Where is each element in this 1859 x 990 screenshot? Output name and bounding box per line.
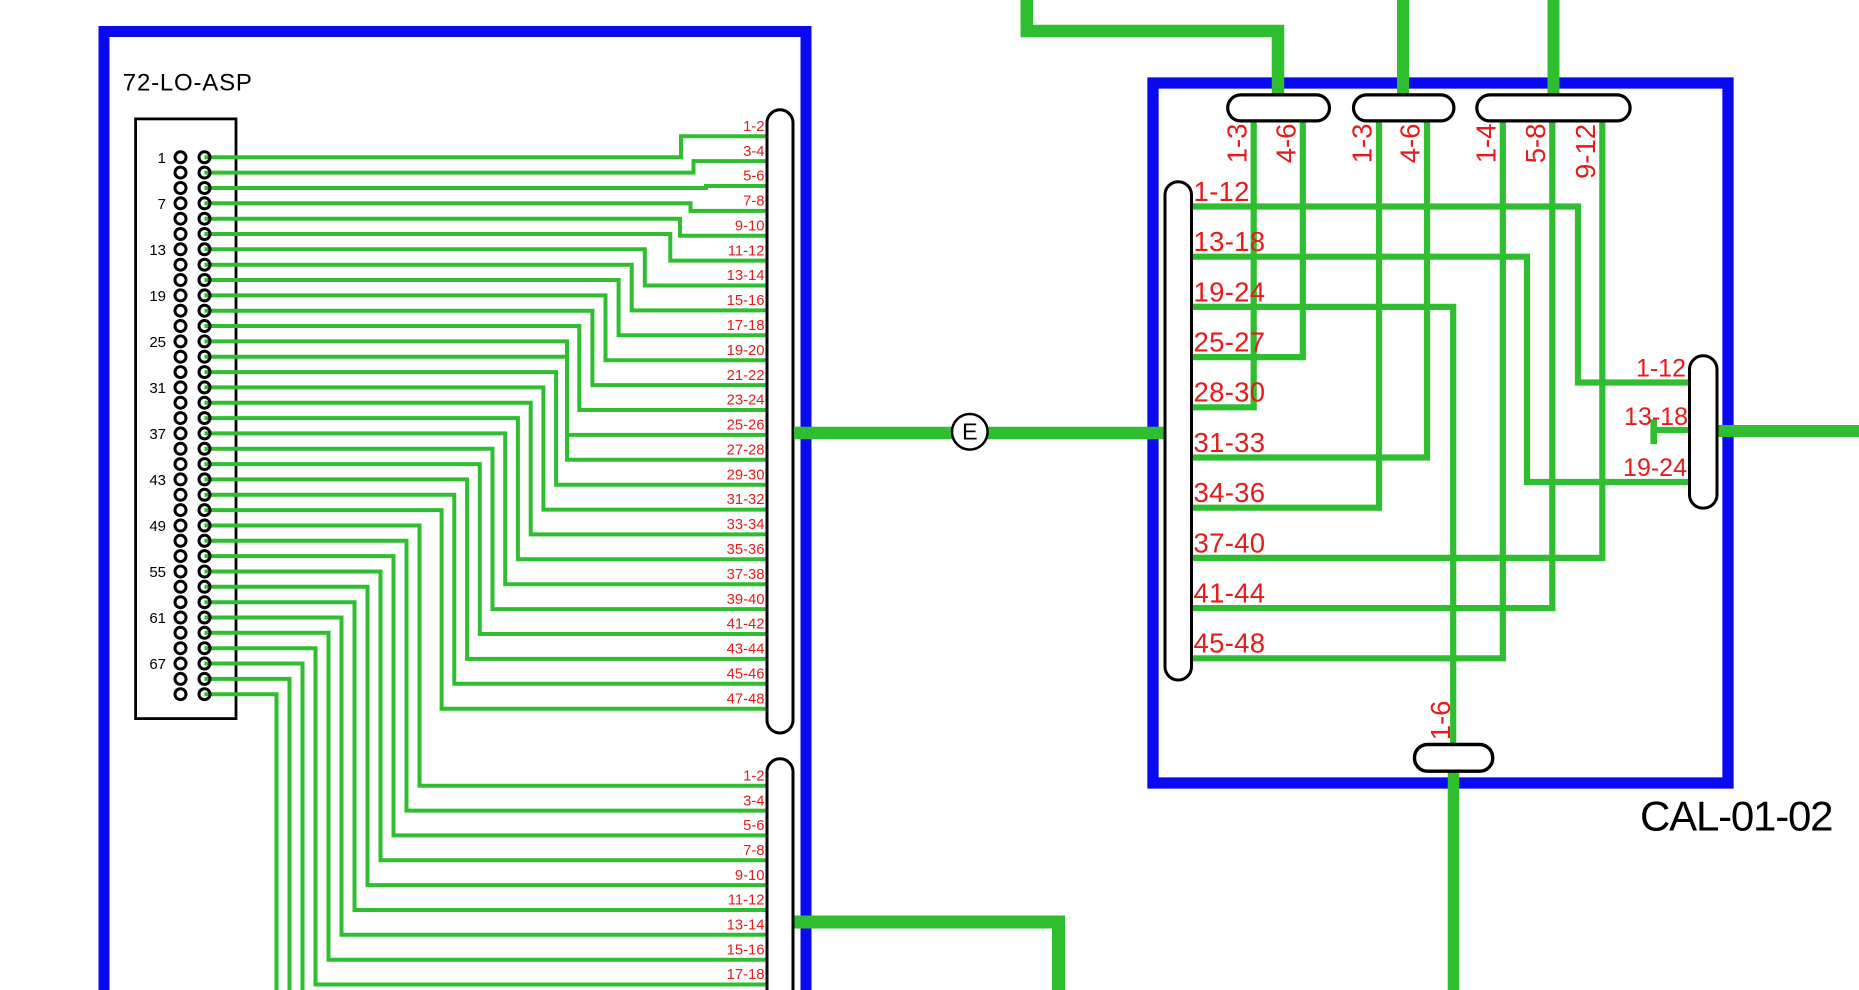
enclosure CAL-01-02 (blue border): [1153, 83, 1728, 783]
svg-text:19-24: 19-24: [1194, 276, 1266, 307]
wire pins 1-2: [205, 136, 781, 157]
node E (cable junction): [952, 414, 988, 450]
svg-text:15-16: 15-16: [727, 942, 765, 958]
svg-text:31-33: 31-33: [1194, 427, 1266, 458]
splice capsule 2 (72-LO-ASP pins 49-72): [767, 759, 793, 990]
wire cable-E (72-LO-ASP to CAL-01-02): [794, 427, 1172, 440]
wire row 34-36 to capsule B 1-3: [1180, 112, 1379, 508]
wire row 28-30 to capsule A 1-3: [1180, 112, 1254, 407]
splice capsule right (CAL east): [1690, 356, 1718, 508]
svg-text:41-42: 41-42: [727, 617, 765, 633]
wire pins 57-58: [205, 587, 781, 885]
svg-text:13-18: 13-18: [1624, 403, 1688, 431]
svg-text:35-36: 35-36: [727, 542, 765, 558]
svg-text:37-38: 37-38: [727, 567, 765, 583]
svg-text:31: 31: [149, 380, 166, 397]
wire pins 25-26: [205, 341, 781, 435]
svg-text:67: 67: [149, 656, 166, 673]
connector body 72-LO-ASP (pin block): [136, 119, 236, 719]
wire pins 59-60: [205, 602, 781, 910]
svg-text:E: E: [962, 419, 978, 445]
splice capsule 1 (72-LO-ASP pins 1-48): [767, 110, 793, 733]
wire pins 5-6: [205, 186, 781, 188]
wire pins 27-28: [205, 357, 781, 460]
wire pins 23-24: [205, 326, 781, 410]
wire pins 71-72: [205, 694, 277, 990]
svg-text:5-6: 5-6: [743, 818, 764, 834]
splice capsule bottom (CAL 1-6): [1415, 745, 1493, 772]
wire row 45-48 to capsule C 1-4: [1180, 112, 1503, 658]
wire row 1-12 to right capsule: [1180, 207, 1700, 383]
svg-text:4-6: 4-6: [1395, 124, 1426, 164]
svg-text:13-14: 13-14: [727, 918, 765, 934]
wire pins 69-70: [205, 679, 290, 990]
svg-text:29-30: 29-30: [727, 467, 765, 483]
wire pins 13-14: [205, 249, 781, 285]
wire pins 61-62: [205, 618, 781, 935]
wire pins 51-52: [205, 541, 781, 811]
svg-text:CAL-01-02: CAL-01-02: [1640, 793, 1832, 840]
svg-text:25-27: 25-27: [1194, 327, 1266, 358]
svg-text:37: 37: [149, 426, 166, 443]
wire pins 53-54: [205, 556, 781, 835]
wire pins 43-44: [205, 479, 781, 659]
svg-text:41-44: 41-44: [1194, 578, 1266, 609]
wire row 31-33 to capsule B 4-6: [1180, 112, 1427, 458]
svg-text:17-18: 17-18: [727, 318, 765, 334]
svg-text:43-44: 43-44: [727, 642, 765, 658]
svg-text:31-32: 31-32: [727, 492, 765, 508]
svg-text:7-8: 7-8: [743, 194, 764, 210]
svg-text:39-40: 39-40: [727, 592, 765, 608]
wire pins 55-56: [205, 572, 781, 861]
wire pins 7-8: [205, 203, 781, 211]
svg-text:47-48: 47-48: [727, 691, 765, 707]
svg-text:4-6: 4-6: [1271, 124, 1302, 164]
svg-text:25: 25: [149, 334, 166, 351]
svg-text:23-24: 23-24: [727, 393, 765, 409]
svg-text:15-16: 15-16: [727, 293, 765, 309]
svg-text:3-4: 3-4: [743, 793, 764, 809]
wire pins 41-42: [205, 464, 781, 634]
svg-text:19: 19: [149, 288, 166, 305]
wire row 13-18 to right capsule 19-24: [1180, 257, 1700, 482]
svg-text:21-22: 21-22: [727, 368, 765, 384]
terminator bar 13-18 stub: [1650, 419, 1657, 444]
svg-text:1-2: 1-2: [743, 119, 764, 135]
svg-text:1-3: 1-3: [1347, 124, 1378, 164]
wire pins 47-48: [205, 510, 781, 709]
svg-text:34-36: 34-36: [1194, 477, 1266, 508]
wire pins 39-40: [205, 449, 781, 609]
wire pins 21-22: [205, 311, 781, 385]
svg-text:45-46: 45-46: [727, 667, 765, 683]
svg-text:1-4: 1-4: [1471, 124, 1502, 164]
svg-text:25-26: 25-26: [727, 418, 765, 434]
wire pins 45-46: [205, 495, 781, 684]
svg-text:13-18: 13-18: [1194, 226, 1266, 257]
wire pins 15-16: [205, 265, 781, 311]
svg-text:5-6: 5-6: [743, 169, 764, 185]
svg-text:45-48: 45-48: [1194, 628, 1266, 659]
svg-text:11-12: 11-12: [728, 243, 765, 259]
svg-text:5-8: 5-8: [1520, 124, 1551, 164]
svg-text:61: 61: [149, 610, 166, 627]
wire pins 33-34: [205, 403, 781, 535]
svg-text:3-4: 3-4: [743, 144, 764, 160]
svg-text:1-3: 1-3: [1221, 124, 1252, 164]
wire top feed A: [1027, 0, 1278, 100]
wire stub 13-18 (spare): [1654, 427, 1700, 433]
svg-text:9-10: 9-10: [735, 219, 765, 235]
wire pins 19-20: [205, 295, 781, 360]
wire right exit (to east): [1712, 425, 1859, 437]
enclosure 72-LO-ASP (blue border): [104, 32, 806, 990]
patch capsule A (top): [1228, 95, 1330, 121]
wire pins 49-50: [205, 526, 781, 786]
svg-text:19-24: 19-24: [1623, 454, 1687, 482]
svg-text:1-2: 1-2: [743, 768, 764, 784]
patch capsule B (top): [1354, 95, 1454, 121]
svg-text:1-6: 1-6: [1425, 701, 1456, 741]
wire top feed C: [1548, 0, 1560, 100]
svg-text:43: 43: [149, 472, 166, 489]
svg-text:1-12: 1-12: [1636, 355, 1686, 383]
patch capsule C (top): [1477, 95, 1630, 121]
wire row 19-24 to bottom capsule: [1180, 307, 1453, 755]
svg-text:13-14: 13-14: [727, 268, 765, 284]
svg-text:9-12: 9-12: [1570, 124, 1601, 179]
wire pins 65-66: [205, 648, 781, 984]
svg-text:72-LO-ASP: 72-LO-ASP: [123, 70, 253, 97]
svg-text:55: 55: [149, 564, 166, 581]
svg-text:7: 7: [158, 196, 166, 213]
wire pins 35-36: [205, 418, 781, 559]
wire row 37-40 to capsule C 9-12: [1180, 112, 1602, 558]
pin circles rows 1-72: [175, 152, 186, 163]
svg-text:28-30: 28-30: [1194, 377, 1266, 408]
svg-text:17-18: 17-18: [727, 967, 765, 983]
svg-text:27-28: 27-28: [727, 443, 765, 459]
svg-text:9-10: 9-10: [735, 868, 765, 884]
svg-text:19-20: 19-20: [727, 343, 765, 359]
splice capsule left (CAL 1-48): [1165, 182, 1192, 680]
wire row 41-44 to capsule C 5-8: [1180, 112, 1552, 608]
svg-text:7-8: 7-8: [743, 843, 764, 859]
wire pins 9-10: [205, 219, 781, 236]
wire pins 3-4: [205, 161, 781, 173]
svg-text:1: 1: [158, 150, 166, 167]
wire pins 29-30: [205, 372, 781, 485]
wire cable lower (capsule2 exit): [793, 922, 1059, 990]
wire pins 37-38: [205, 433, 781, 584]
svg-text:33-34: 33-34: [727, 517, 765, 533]
wire pins 17-18: [205, 280, 781, 335]
svg-text:13: 13: [149, 242, 166, 259]
svg-text:37-40: 37-40: [1194, 527, 1266, 558]
svg-text:11-12: 11-12: [728, 893, 765, 909]
wire bottom exit 1-6: [1448, 769, 1460, 990]
svg-text:1-12: 1-12: [1194, 176, 1250, 207]
wire pins 11-12: [205, 234, 781, 261]
wire top feed B: [1397, 0, 1409, 100]
wire row 25-27 to capsule A 4-6: [1180, 112, 1303, 357]
svg-text:49: 49: [149, 518, 166, 535]
wire pins 63-64: [205, 633, 781, 960]
wire pins 67-68: [205, 664, 303, 990]
wire pins 31-32: [205, 387, 781, 509]
